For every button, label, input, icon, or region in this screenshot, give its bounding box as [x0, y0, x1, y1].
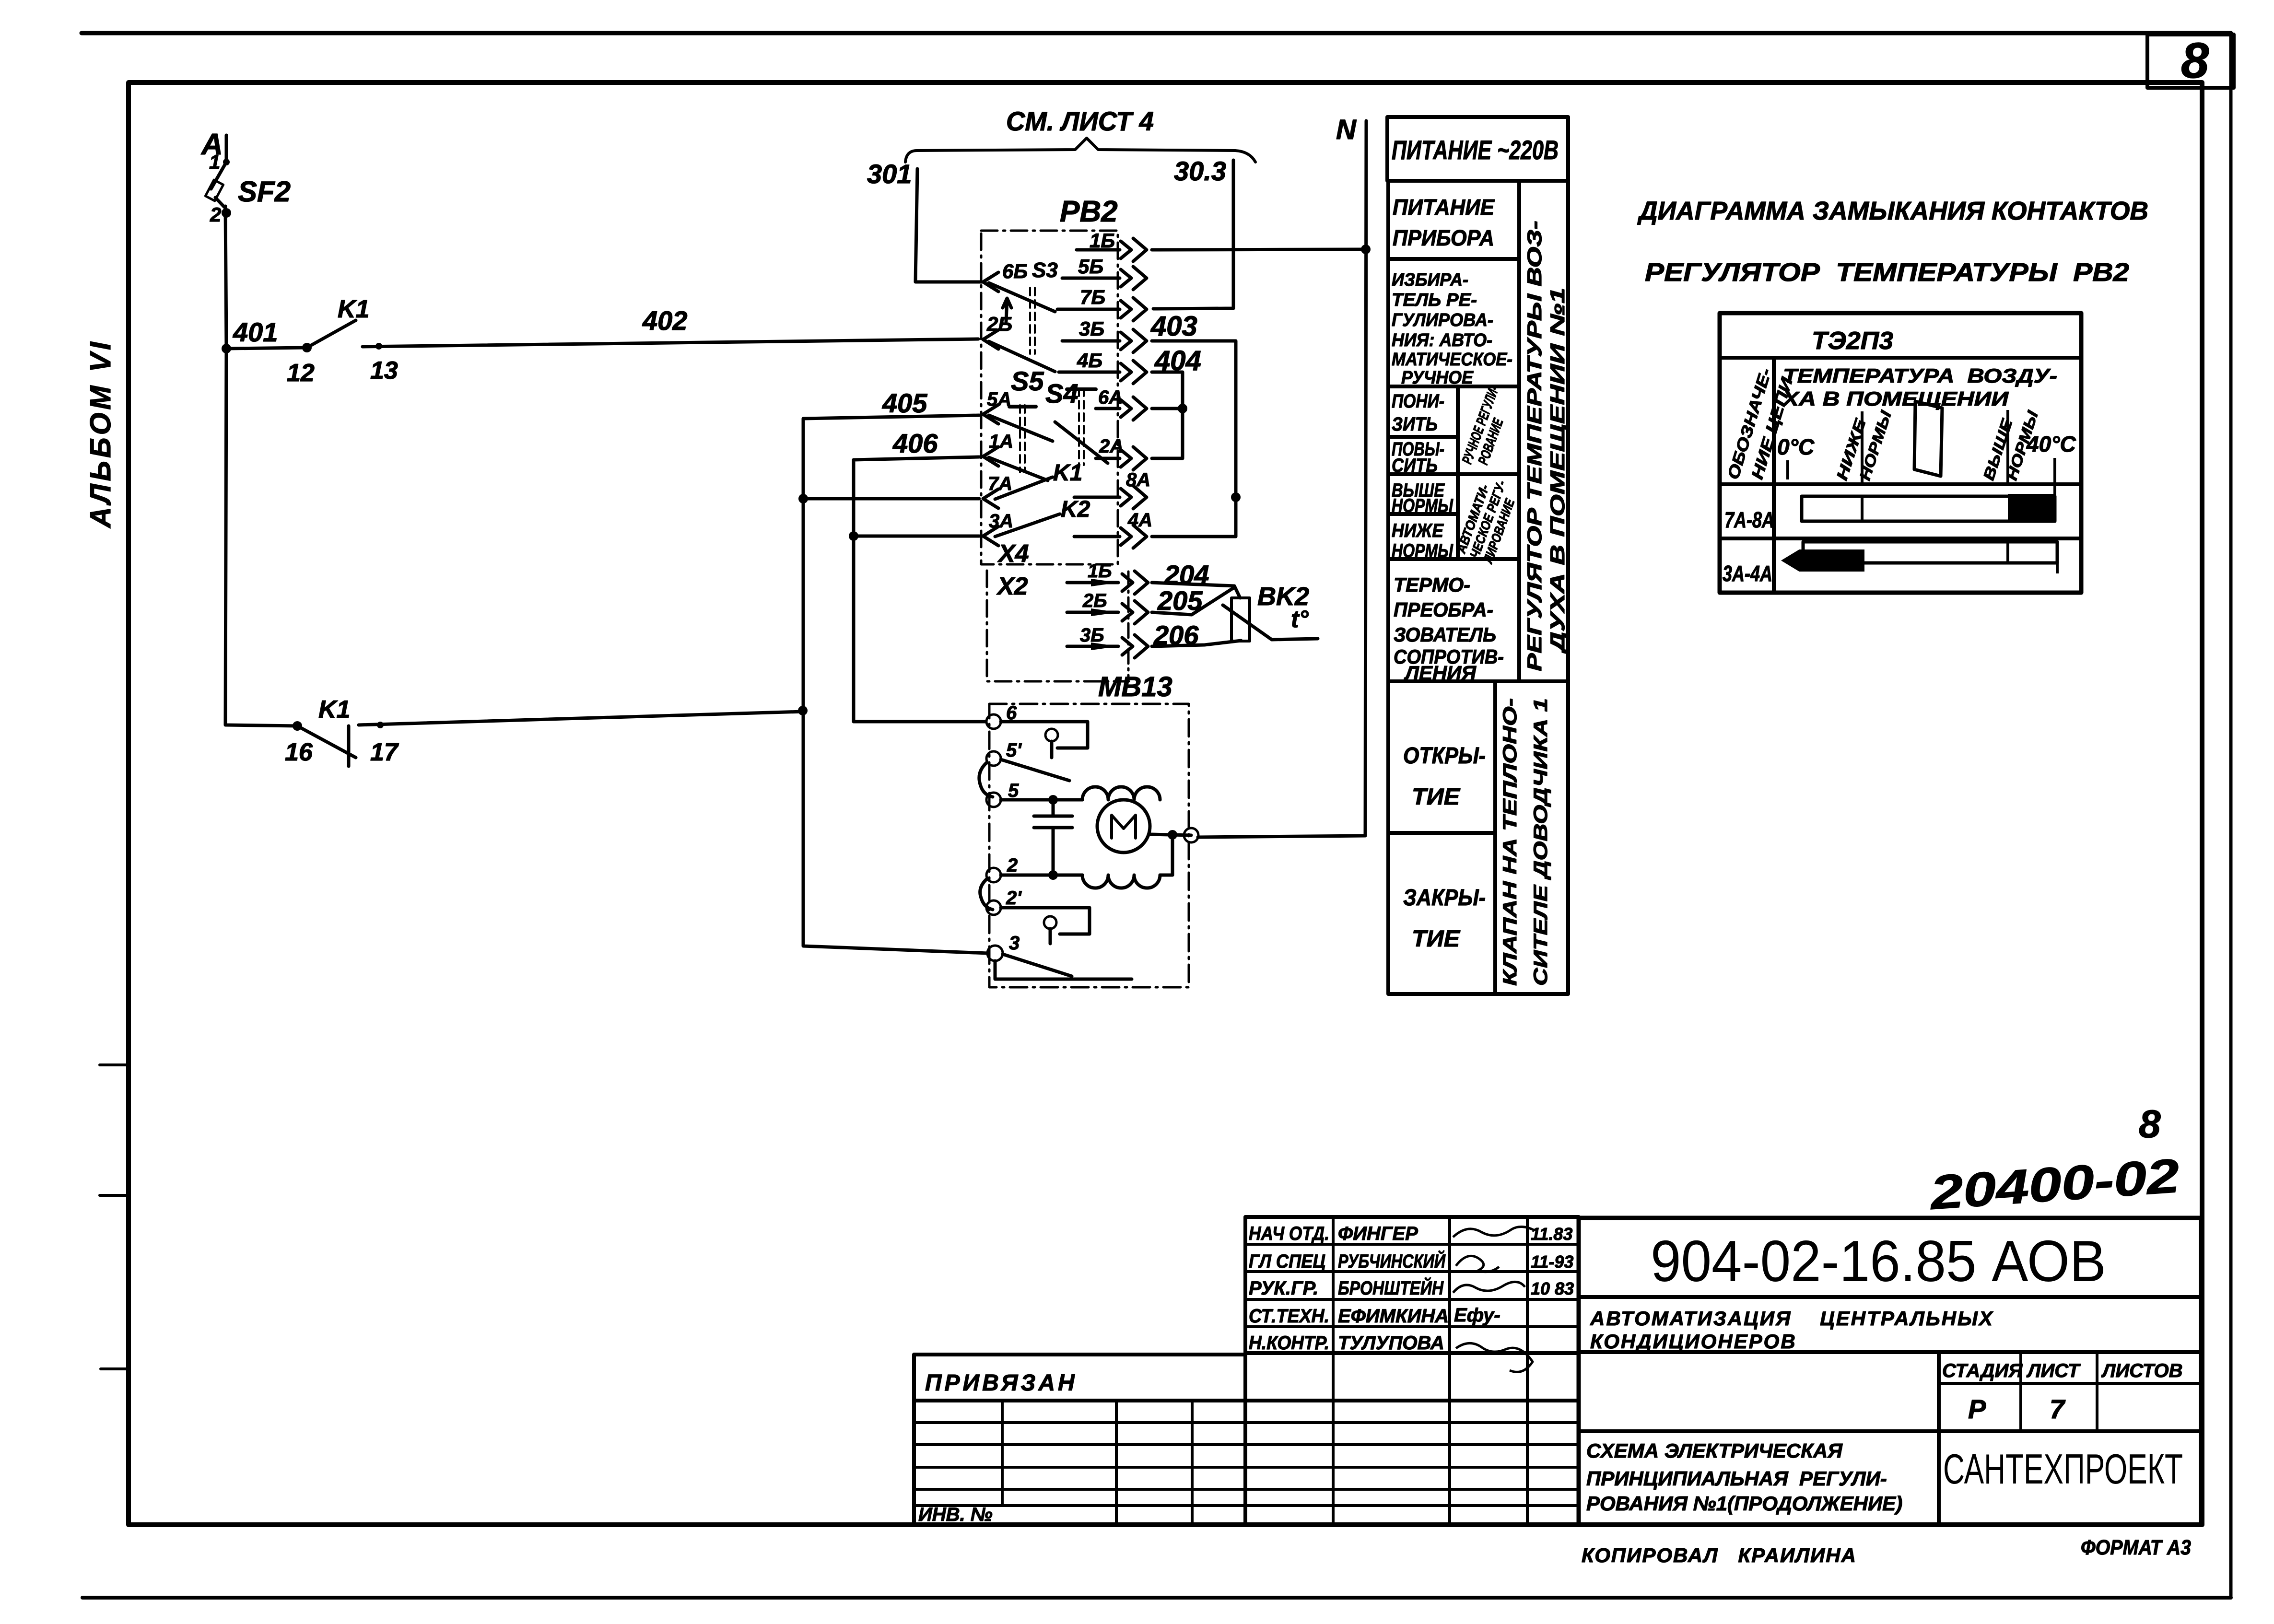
- stage section divider: [1937, 1352, 1941, 1525]
- signal table header box: [1387, 117, 1568, 181]
- terminal 5A input arrow: [983, 405, 998, 424]
- terminal 2 circle: [986, 868, 1001, 882]
- switch S4 blade: [1055, 422, 1108, 463]
- lower grid rows: [914, 1401, 1579, 1506]
- row 3A-4A bar outline: [1803, 542, 2057, 563]
- svg-text:7А-8А: 7А-8А: [1724, 507, 1774, 532]
- above-norm boundary line: [2006, 410, 2009, 484]
- row 3A-4A right tick: [2056, 542, 2059, 573]
- wire 403 to 4A: [1152, 497, 1236, 537]
- svg-text:8А: 8А: [1126, 469, 1150, 491]
- svg-text:ТЭ2П3: ТЭ2П3: [1812, 327, 1893, 355]
- wire 2 to winding: [1001, 874, 1082, 877]
- svg-text:K1: K1: [338, 295, 369, 323]
- signature tulupova: [1456, 1343, 1533, 1372]
- node motor-right dot: [1168, 830, 1177, 840]
- row line lower: [1388, 435, 1458, 439]
- svg-text:ПИТАНИЕ: ПИТАНИЕ: [1393, 195, 1495, 220]
- cell selector text: [1392, 270, 1512, 388]
- motor M1: [1097, 800, 1150, 853]
- svg-text:ПРИНЦИПИАЛЬНАЯ РЕГУЛИ-: ПРИНЦИПИАЛЬНАЯ РЕГУЛИ-: [1586, 1467, 1887, 1490]
- wire 3A feed: [854, 535, 979, 538]
- cell close text: [1403, 885, 1486, 952]
- svg-text:403: 403: [1150, 311, 1197, 342]
- svg-text:2': 2': [1006, 888, 1022, 909]
- node 401 dot: [222, 344, 231, 353]
- svg-text:S4: S4: [1045, 378, 1078, 409]
- row line above norm: [1388, 512, 1458, 516]
- svg-text:12: 12: [287, 359, 315, 387]
- limit switch lower return: [995, 961, 1132, 979]
- contact K1 bottom tick: [347, 726, 351, 766]
- wire 30.3: [1153, 160, 1233, 309]
- connector X2 spine: [1127, 572, 1130, 681]
- svg-text:17: 17: [370, 738, 399, 766]
- project name row line: [1579, 1350, 2201, 1354]
- svg-text:ФОРМАТ А3: ФОРМАТ А3: [2081, 1536, 2191, 1559]
- svg-text:ЛИСТОВ: ЛИСТОВ: [2101, 1360, 2183, 1381]
- terminal 7A input arrow: [983, 489, 998, 508]
- svg-text:3: 3: [1009, 933, 1020, 954]
- svg-text:401: 401: [233, 317, 278, 347]
- linked box frame: [914, 1355, 1245, 1401]
- terminal 1A input arrow: [983, 447, 998, 466]
- approval rows: [1245, 1244, 1579, 1327]
- svg-text:406: 406: [892, 428, 938, 458]
- node 12 dot: [302, 343, 312, 352]
- terminal 8A output: [1074, 486, 1147, 509]
- svg-text:2А: 2А: [1099, 436, 1124, 457]
- switch S3 blade: [989, 283, 1055, 312]
- row 3A-4A closed segment: [1781, 549, 1864, 572]
- svg-text:НАЧ ОТД.: НАЧ ОТД.: [1249, 1223, 1329, 1244]
- cell raise text: [1392, 439, 1444, 476]
- node 16 dot: [293, 721, 302, 731]
- node N-1B dot: [1361, 245, 1371, 254]
- stage header underline: [1939, 1382, 2201, 1385]
- wire 404: [1152, 372, 1183, 409]
- setpoint parallelogram: [1914, 401, 1942, 476]
- wire stub phase A: [223, 135, 230, 165]
- switch S4 link dashes: [1079, 388, 1084, 465]
- svg-text:ПРИБОРА: ПРИБОРА: [1393, 225, 1494, 250]
- wire motor to terminal 1: [1150, 834, 1191, 835]
- approval columns: [1333, 1217, 1527, 1525]
- terminal 5p circle: [986, 751, 1001, 766]
- breaker SF2: [205, 162, 226, 207]
- valve rotated text: [1500, 698, 1551, 986]
- manual arrow 2B: [1003, 298, 1011, 321]
- manual mode rotated text: [1459, 384, 1516, 471]
- fold mark 1: [100, 1063, 129, 1066]
- temperature header text: [1782, 364, 2057, 410]
- cell power text: [1393, 195, 1495, 250]
- svg-text:904-02-16.85 АОВ: 904-02-16.85 АОВ: [1651, 1228, 2106, 1294]
- brace under note: [905, 138, 1255, 162]
- svg-text:ХА В ПОМЕЩЕНИИ: ХА В ПОМЕЩЕНИИ: [1782, 387, 2009, 410]
- svg-text:СИТЕЛЕ ДОВОДЧИКА 1: СИТЕЛЕ ДОВОДЧИКА 1: [1530, 698, 1551, 986]
- TE2P3 table frame: [1720, 313, 2081, 593]
- row line below norm: [1388, 557, 1519, 561]
- svg-text:РУЧНОЕ: РУЧНОЕ: [1401, 368, 1474, 388]
- stage header text: [1942, 1360, 2183, 1381]
- row line power: [1388, 257, 1519, 261]
- cell lower text: [1392, 391, 1444, 435]
- row 7A-8A closed segment: [2008, 494, 2056, 523]
- TE2P3 header underline: [1720, 356, 2081, 360]
- wire 401-12 segment: [226, 348, 307, 349]
- signature rubchinsky: [1456, 1256, 1499, 1272]
- approval row1 text: [1249, 1223, 1572, 1244]
- wire 402: [363, 339, 978, 347]
- svg-text:3Б: 3Б: [1079, 317, 1104, 340]
- svg-text:НИЯ: АВТО-: НИЯ: АВТО-: [1392, 330, 1492, 351]
- wire 1B to N: [1152, 249, 1366, 250]
- resistor BK2: [1231, 598, 1250, 641]
- svg-text:КЛАПАН НА ТЕПЛОНО-: КЛАПАН НА ТЕПЛОНО-: [1500, 698, 1521, 986]
- MB13 enclosure dash-dot: [989, 704, 1189, 987]
- TE2P3 first column divider: [1772, 358, 1776, 593]
- wire winding to terminal 1: [1160, 835, 1172, 875]
- svg-text:1Б: 1Б: [1090, 229, 1115, 252]
- svg-text:ДУХА В ПОМЕЩЕНИИ №1: ДУХА В ПОМЕЩЕНИИ №1: [1546, 288, 1569, 654]
- svg-text:11.83: 11.83: [1531, 1224, 1572, 1244]
- cell below norm text: [1392, 520, 1453, 561]
- svg-text:ЗАКРЫ-: ЗАКРЫ-: [1403, 885, 1486, 911]
- approval row2 text: [1249, 1250, 1573, 1272]
- svg-text:1Б: 1Б: [1088, 561, 1112, 582]
- mode sub column divider: [1456, 386, 1460, 559]
- approval row3 text: [1249, 1276, 1574, 1299]
- fold mark 3: [101, 1367, 129, 1370]
- svg-text:КОНДИЦИОНЕРОВ: КОНДИЦИОНЕРОВ: [1590, 1330, 1797, 1353]
- signature bronstein: [1453, 1282, 1525, 1293]
- node 405-K1 dot: [798, 706, 808, 715]
- svg-text:ПРИВЯЗАН: ПРИВЯЗАН: [925, 1370, 1078, 1396]
- wire 403: [1152, 341, 1236, 497]
- description row line: [1579, 1429, 2201, 1433]
- approval row4 text: [1249, 1305, 1500, 1327]
- svg-text:2: 2: [1007, 855, 1018, 876]
- stage column line: [2019, 1352, 2022, 1431]
- motor winding bottom: [1082, 875, 1160, 888]
- terminal X2-1B: [1067, 571, 1148, 594]
- row separator: [1720, 537, 2081, 540]
- terminal X2-3B: [1067, 635, 1148, 658]
- svg-text:301: 301: [867, 159, 912, 189]
- connector X2 enclosure: [987, 571, 1129, 681]
- terminal 4B output: [1059, 361, 1147, 384]
- fold mark 2: [100, 1194, 129, 1197]
- svg-text:ДИАГРАММА ЗАМЫКАНИЯ КОНТАКТОВ: ДИАГРАММА ЗАМЫКАНИЯ КОНТАКТОВ: [1637, 197, 2148, 225]
- wire 406: [854, 457, 986, 722]
- svg-text:ТИЕ: ТИЕ: [1412, 784, 1461, 810]
- svg-text:ЗОВАТЕЛЬ: ЗОВАТЕЛЬ: [1394, 623, 1496, 646]
- svg-text:ИЗБИРА-: ИЗБИРА-: [1392, 270, 1468, 290]
- limit switch upper blade: [1001, 759, 1069, 781]
- svg-text:X4: X4: [997, 540, 1029, 568]
- sheet bottom edge line: [82, 1596, 2231, 1600]
- approval row5 text: [1249, 1332, 1444, 1354]
- wire 16-17 to MB13: [359, 712, 803, 725]
- row line selector: [1388, 385, 1519, 388]
- cell above norm text: [1392, 480, 1453, 516]
- svg-text:405: 405: [882, 388, 927, 418]
- wire 405: [803, 415, 988, 953]
- svg-text:ТЕЛЬ РЕ-: ТЕЛЬ РЕ-: [1392, 290, 1477, 310]
- signal table body frame: [1388, 181, 1568, 994]
- svg-text:13: 13: [370, 357, 398, 385]
- above-norm rotated labels: [1980, 408, 2041, 482]
- svg-text:MB13: MB13: [1098, 671, 1172, 702]
- circuit designation rotated text: [1724, 366, 1796, 482]
- BK2 strike line: [1223, 605, 1318, 640]
- svg-text:2Б: 2Б: [986, 313, 1012, 335]
- svg-text:МАТИЧЕСКОЕ-: МАТИЧЕСКОЕ-: [1392, 350, 1512, 370]
- signal table lower right column divider: [1493, 681, 1497, 994]
- svg-text:S3: S3: [1032, 258, 1058, 282]
- svg-text:АЛЬБОМ VI: АЛЬБОМ VI: [84, 339, 117, 528]
- svg-text:30.3: 30.3: [1174, 156, 1226, 186]
- svg-text:КОПИРОВАЛ КРАИЛИНА: КОПИРОВАЛ КРАИЛИНА: [1582, 1544, 1857, 1566]
- switch S5 blade1: [989, 415, 1053, 441]
- below-norm boundary line: [1861, 411, 1864, 484]
- terminal 2A output: [1096, 447, 1147, 470]
- project name text: [1590, 1307, 1994, 1353]
- limit switch lower blade: [1003, 954, 1072, 976]
- svg-text:НИЖЕ: НИЖЕ: [1392, 520, 1444, 541]
- terminal 2p circle: [986, 900, 1001, 915]
- svg-text:ТЕМПЕРАТУРА ВОЗДУ-: ТЕМПЕРАТУРА ВОЗДУ-: [1783, 364, 2057, 387]
- node 406-3A dot: [849, 531, 858, 541]
- switch S5 link dashes: [1020, 405, 1025, 472]
- svg-text:SF2: SF2: [238, 175, 291, 208]
- svg-text:СХЕМА ЭЛЕКТРИЧЕСКАЯ: СХЕМА ЭЛЕКТРИЧЕСКАЯ: [1586, 1439, 1843, 1462]
- svg-text:5Б: 5Б: [1078, 255, 1103, 278]
- svg-text:НОРМЫ: НОРМЫ: [1392, 540, 1453, 561]
- terminal 3A input arrow: [983, 526, 998, 546]
- svg-text:4Б: 4Б: [1077, 349, 1102, 372]
- contact K1 bottom blade: [297, 726, 356, 758]
- wire 5 to motor: [1001, 798, 1082, 802]
- terminal X2-2B: [1067, 601, 1148, 624]
- terminal 2B input arrow: [983, 330, 998, 349]
- row 7A-8A bar divider: [1861, 496, 1864, 521]
- doc code row line: [1579, 1295, 2201, 1299]
- svg-text:АВТОМАТИЗАЦИЯ ЦЕНТРАЛЬНЫХ: АВТОМАТИЗАЦИЯ ЦЕНТРАЛЬНЫХ: [1590, 1307, 1994, 1330]
- wire 401 vertical: [225, 206, 226, 349]
- svg-text:11-93: 11-93: [1531, 1252, 1573, 1272]
- svg-text:7: 7: [2050, 1394, 2066, 1424]
- node capacitor bottom dot: [1048, 870, 1058, 880]
- node 403-8A dot: [1231, 492, 1241, 502]
- svg-text:ПРЕОБРА-: ПРЕОБРА-: [1394, 598, 1493, 621]
- row 3A-4A bar divider: [2006, 542, 2009, 563]
- svg-text:3А-4А: 3А-4А: [1723, 561, 1772, 586]
- limit switch lower bracket: [1001, 908, 1090, 934]
- limit switch lower pin: [1044, 916, 1056, 944]
- svg-text:K2: K2: [1061, 497, 1090, 522]
- sheet top edge line: [82, 31, 2231, 35]
- svg-text:РУБЧИНСКИЙ: РУБЧИНСКИЙ: [1338, 1250, 1446, 1272]
- svg-text:ЛИСТ: ЛИСТ: [2026, 1360, 2081, 1381]
- wire 206: [1152, 641, 1241, 646]
- below-norm rotated labels: [1833, 408, 1895, 482]
- regulator rotated text: [1523, 221, 1569, 671]
- svg-text:0°С: 0°С: [1777, 434, 1815, 459]
- svg-text:6Б: 6Б: [1002, 260, 1028, 282]
- svg-text:2Б: 2Б: [1082, 590, 1107, 611]
- auto mode rotated text: [1453, 473, 1522, 565]
- svg-text:РУК.ГР.: РУК.ГР.: [1249, 1278, 1318, 1299]
- cell thermo text: [1394, 573, 1504, 684]
- svg-text:3А: 3А: [989, 511, 1013, 532]
- svg-text:1А: 1А: [989, 431, 1013, 452]
- svg-text:PB2: PB2: [1060, 195, 1118, 228]
- svg-text:Н.КОНТР.: Н.КОНТР.: [1249, 1332, 1329, 1354]
- description text: [1586, 1439, 1902, 1515]
- svg-text:СТ.ТЕХН.: СТ.ТЕХН.: [1249, 1306, 1329, 1327]
- limit switch upper bracket: [1001, 722, 1088, 748]
- svg-text:СТАДИЯ: СТАДИЯ: [1942, 1360, 2023, 1381]
- svg-text:ГЛ СПЕЦ: ГЛ СПЕЦ: [1249, 1251, 1325, 1272]
- terminal 6A output: [1096, 397, 1147, 420]
- svg-text:ТЕРМО-: ТЕРМО-: [1394, 573, 1470, 596]
- limit switch upper pin: [1045, 729, 1058, 758]
- wire 204: [1152, 583, 1240, 598]
- svg-text:4А: 4А: [1127, 510, 1152, 531]
- svg-text:Р: Р: [1968, 1394, 1986, 1424]
- approval table frame: [1245, 1217, 1579, 1353]
- svg-text:ПОНИ-: ПОНИ-: [1392, 391, 1444, 412]
- terminal 3B output: [1062, 329, 1147, 352]
- svg-text:САНТЕХПРОЕКТ: САНТЕХПРОЕКТ: [1943, 1445, 2183, 1493]
- svg-text:10 83: 10 83: [1531, 1279, 1574, 1298]
- capacitor C: [1034, 800, 1072, 875]
- terminal 3 circle: [987, 946, 1003, 961]
- wire 301: [915, 169, 983, 282]
- row line raise: [1388, 472, 1519, 476]
- row 7A-8A bar outline: [1802, 496, 2055, 521]
- switch S3 pole2 blade: [989, 341, 1055, 372]
- svg-text:ЛЕНИЯ: ЛЕНИЯ: [1404, 662, 1477, 684]
- svg-text:ТУЛУПОВА: ТУЛУПОВА: [1338, 1332, 1444, 1354]
- terminal 5 circle: [986, 793, 1001, 807]
- sheet number box: [2147, 35, 2234, 88]
- svg-text:7А: 7А: [988, 473, 1012, 494]
- svg-text:НОРМЫ: НОРМЫ: [1392, 495, 1453, 516]
- svg-text:ЕФИМКИНА: ЕФИМКИНА: [1338, 1306, 1449, 1327]
- svg-text:ТИЕ: ТИЕ: [1412, 926, 1461, 952]
- signature finger: [1453, 1227, 1535, 1237]
- 40C tick line: [2053, 458, 2056, 523]
- contact K1 blade: [995, 477, 1053, 499]
- wire 205: [1152, 587, 1234, 615]
- wire N vertical: [1198, 121, 1366, 837]
- sheet right edge line: [2229, 33, 2233, 1598]
- contact K2 blade: [995, 514, 1060, 537]
- svg-text:ЗИТЬ: ЗИТЬ: [1392, 414, 1438, 435]
- svg-text:РЕГУЛЯТОР ТЕМПЕРАТУРЫ РВ2: РЕГУЛЯТОР ТЕМПЕРАТУРЫ РВ2: [1645, 258, 2129, 287]
- svg-text:402: 402: [642, 305, 687, 336]
- svg-text:N: N: [1336, 114, 1357, 145]
- row line thermo: [1388, 679, 1568, 683]
- svg-text:РЕГУЛЯТОР ТЕМПЕРАТУРЫ ВОЗ-: РЕГУЛЯТОР ТЕМПЕРАТУРЫ ВОЗ-: [1523, 221, 1546, 671]
- svg-text:1: 1: [209, 151, 220, 173]
- lower grid columns: [1002, 1353, 1245, 1525]
- node capacitor top dot: [1048, 795, 1058, 805]
- motor winding top: [1082, 787, 1160, 800]
- sheet column line: [2096, 1352, 2098, 1431]
- header bottom line: [1720, 482, 2081, 486]
- scale 0C tick: [1786, 460, 1789, 479]
- node 17 tick: [377, 722, 384, 728]
- wire 404 to 2A: [1152, 409, 1183, 458]
- svg-text:ПИТАНИЕ ~220В: ПИТАНИЕ ~220В: [1392, 135, 1559, 165]
- wire 7A feed: [803, 497, 979, 501]
- terminal 1B output: [1077, 238, 1147, 261]
- svg-text:8: 8: [2139, 1102, 2161, 1146]
- switch S5 tbar: [1009, 405, 1036, 409]
- svg-text:X2: X2: [996, 572, 1028, 600]
- contact K1 top blade: [307, 320, 356, 348]
- svg-text:S5: S5: [1011, 366, 1044, 396]
- svg-text:K1: K1: [1053, 460, 1082, 486]
- terminal 6B input arrow: [983, 272, 998, 292]
- terminal 5B output: [1062, 267, 1147, 290]
- svg-text:5: 5: [1008, 780, 1019, 801]
- node 2 dot: [222, 208, 231, 218]
- svg-text:5': 5': [1006, 740, 1022, 761]
- svg-text:ФИНГЕР: ФИНГЕР: [1338, 1223, 1418, 1244]
- signal table right column divider: [1517, 181, 1521, 681]
- terminal 4A output: [1074, 525, 1147, 548]
- node 405-7A dot: [798, 494, 808, 503]
- svg-text:ОТКРЫ-: ОТКРЫ-: [1403, 743, 1486, 769]
- main title box frame: [1579, 1218, 2201, 1525]
- svg-text:БРОНШТЕЙН: БРОНШТЕЙН: [1338, 1276, 1444, 1299]
- jumper 5p-5: [979, 762, 993, 797]
- svg-text:16: 16: [285, 738, 313, 766]
- svg-text:СИТЬ: СИТЬ: [1392, 455, 1438, 476]
- row line open: [1388, 831, 1495, 835]
- cell open text: [1403, 743, 1486, 810]
- switch S4 tbar: [1067, 387, 1096, 391]
- jumper 2-2p: [980, 879, 993, 910]
- svg-text:3Б: 3Б: [1080, 625, 1104, 646]
- svg-text:ИНВ. №: ИНВ. №: [918, 1504, 993, 1525]
- svg-text:6А: 6А: [1098, 387, 1123, 408]
- switch S5 blade2: [989, 457, 1048, 480]
- svg-text:t°: t°: [1291, 606, 1309, 632]
- terminal 6 circle: [986, 714, 1001, 729]
- svg-text:РОВАНИЯ №1(ПРОДОЛЖЕНИЕ): РОВАНИЯ №1(ПРОДОЛЖЕНИЕ): [1586, 1492, 1902, 1515]
- node 404-6A dot: [1178, 404, 1187, 413]
- PB2 enclosure dash-dot: [981, 231, 1118, 564]
- svg-text:ГУЛИРОВА-: ГУЛИРОВА-: [1392, 310, 1493, 330]
- svg-text:K1: K1: [318, 696, 350, 724]
- svg-text:СМ. ЛИСТ 4: СМ. ЛИСТ 4: [1006, 106, 1154, 136]
- terminal 1 circle: [1184, 828, 1198, 842]
- svg-text:2: 2: [210, 203, 221, 226]
- svg-text:7Б: 7Б: [1080, 286, 1105, 308]
- lower grid left edge: [912, 1401, 916, 1525]
- wire K1 bottom left: [225, 349, 297, 726]
- switch S3 link dashes: [1030, 288, 1035, 354]
- svg-text:Ефу-: Ефу-: [1454, 1305, 1500, 1326]
- node 13 tick: [375, 343, 382, 350]
- terminal 7B output: [1057, 298, 1147, 321]
